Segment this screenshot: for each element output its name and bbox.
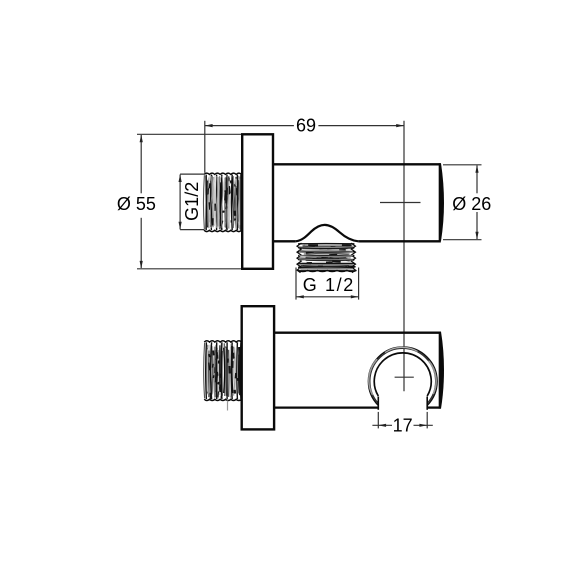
svg-text:Ø 26: Ø 26 xyxy=(452,194,491,214)
dimension 17 xyxy=(372,412,432,429)
svg-text:69: 69 xyxy=(296,116,316,136)
wall-side male thread G1/2 (bottom view) xyxy=(204,341,242,411)
body end cap (top view) xyxy=(439,163,444,241)
body Ø26 (top view) xyxy=(274,164,441,241)
center line through holder axis xyxy=(403,121,405,391)
downward male thread G 1/2 (top view) xyxy=(297,243,357,273)
crosshair on holder axis (top view) xyxy=(380,202,421,204)
outlet boss bump (top view) xyxy=(296,225,359,241)
flange (top view) xyxy=(242,134,273,268)
crosshair at holder center (bottom view) xyxy=(395,376,414,378)
body end cap (bottom view) xyxy=(439,332,444,409)
shower holder ring (bottom view) xyxy=(368,347,437,410)
dimension 69 xyxy=(205,121,404,173)
flange (bottom view) xyxy=(242,306,274,429)
dimension G1/2 (thread size, top view) xyxy=(180,174,204,230)
dimension Ø 26 xyxy=(443,165,482,240)
svg-text:G 1/2: G 1/2 xyxy=(303,275,355,295)
wall-side male thread G1/2 (top view) xyxy=(204,173,242,232)
svg-text:G1/2: G1/2 xyxy=(182,182,202,221)
svg-text:Ø 55: Ø 55 xyxy=(117,194,156,214)
svg-text:17: 17 xyxy=(393,415,413,435)
body (bottom view) xyxy=(274,333,441,408)
dimension G 1/2 (outlet thread, top view) xyxy=(296,268,359,300)
dimension Ø 55 xyxy=(137,134,243,268)
